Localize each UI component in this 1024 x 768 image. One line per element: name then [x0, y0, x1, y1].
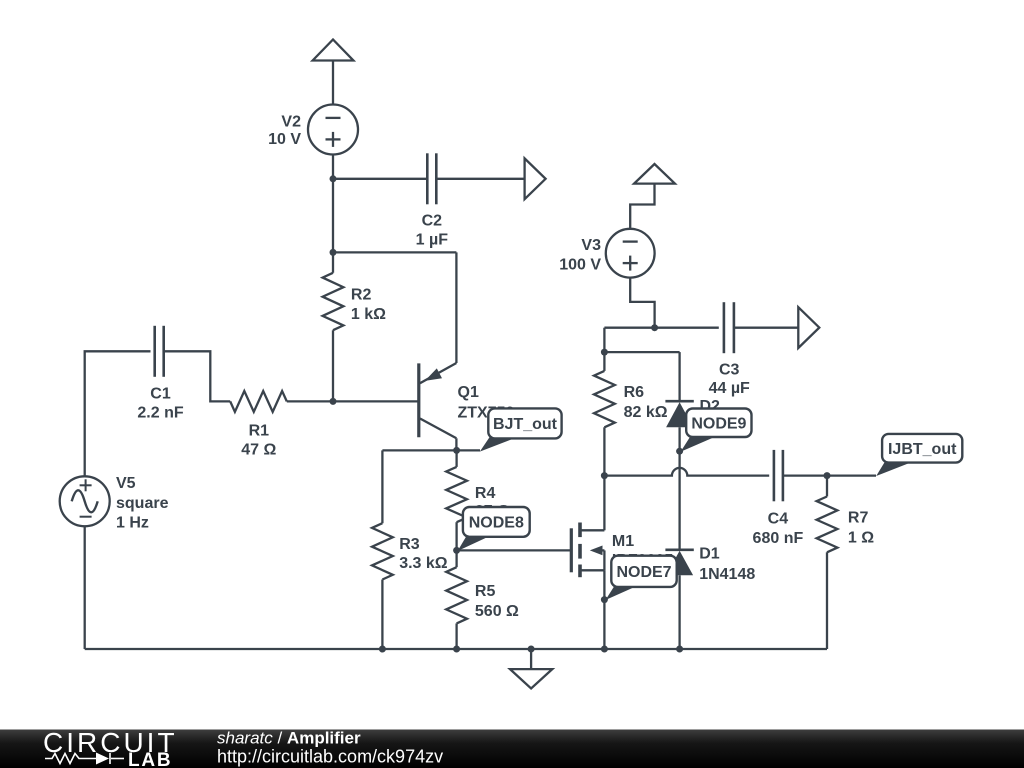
node junction R4/R5/M1 gate (NODE8) — [453, 547, 460, 554]
wire D1 anode to ground rail — [678, 575, 680, 649]
resistor R2 — [323, 252, 387, 401]
svg-text:sharatc / Amplifier: sharatc / Amplifier — [217, 729, 361, 748]
svg-text:NODE9: NODE9 — [691, 415, 746, 432]
CircuitLab logo — [43, 727, 178, 768]
node junction R6 bottom / M1 drain / mid rail — [601, 472, 608, 479]
wire C1 to R1 — [164, 351, 231, 401]
svg-text:47 Ω: 47 Ω — [241, 442, 276, 459]
power flag VCC (above V2) — [313, 40, 354, 61]
svg-text:LAB: LAB — [128, 750, 172, 768]
svg-text:R1: R1 — [249, 423, 270, 440]
svg-text:1 kΩ: 1 kΩ — [351, 306, 386, 323]
wire node to C3 — [604, 327, 718, 329]
junction rail/R3 — [379, 646, 386, 653]
wire NODE8 to M1 gate — [457, 549, 572, 551]
svg-text:NODE8: NODE8 — [469, 515, 524, 532]
svg-text:R3: R3 — [399, 536, 420, 553]
output port flag out2 — [798, 307, 819, 348]
wire V5 - down to ground rail — [84, 526, 86, 649]
resistor R6 — [594, 352, 668, 476]
wire node to D2 — [604, 351, 679, 353]
net flag IJBT_out (node IJBT_out) — [876, 434, 962, 476]
resistor R7 — [817, 476, 875, 649]
node junction D2/D1 (NODE9) — [676, 448, 683, 455]
node M1 source (NODE7) — [601, 596, 608, 603]
svg-text:82 kΩ: 82 kΩ — [624, 404, 668, 421]
capacitor C4 — [753, 450, 804, 547]
svg-text:Q1: Q1 — [458, 384, 479, 401]
svg-text:R6: R6 — [624, 384, 645, 401]
transistor M1 (NMOS) — [571, 476, 673, 649]
wire stub to BJT_out flag — [457, 449, 480, 451]
svg-text:square: square — [116, 495, 169, 512]
wire node to R3 — [382, 449, 456, 451]
wire V5 + up to C1 — [85, 351, 151, 477]
svg-text:BJT_out: BJT_out — [493, 416, 558, 433]
svg-text:R4: R4 — [475, 485, 496, 502]
voltage source V2 — [268, 105, 358, 155]
junction rail/D1 — [676, 646, 683, 653]
resistor R1 — [230, 391, 287, 459]
junction rail/ground — [528, 646, 535, 653]
wire node to Q1 emitter — [333, 251, 456, 253]
node junction V2/C2/R2 — [330, 175, 337, 182]
capacitor C3 — [709, 302, 750, 397]
svg-text:NODE7: NODE7 — [616, 564, 671, 581]
node junction C4/R7/IJBT_out — [824, 472, 831, 479]
capacitor C1 — [137, 326, 183, 422]
wire ground rail — [85, 648, 827, 650]
wire down to R2 node — [332, 179, 334, 253]
svg-text:680 nF: 680 nF — [753, 530, 804, 547]
junction rail/R5 — [453, 646, 460, 653]
ground — [510, 649, 552, 689]
svg-text:V2: V2 — [281, 113, 301, 130]
svg-text:1 Ω: 1 Ω — [848, 530, 874, 547]
svg-text:1 Hz: 1 Hz — [116, 514, 149, 531]
svg-text:R7: R7 — [848, 510, 869, 527]
wire R1 to Q1 base — [287, 400, 419, 402]
wire node to C2 — [333, 178, 427, 180]
capacitor C2 — [416, 153, 449, 248]
wire C2 to output flag — [436, 178, 524, 180]
voltage source V5 (square 1 Hz) — [60, 475, 169, 531]
svg-text:M1: M1 — [612, 533, 634, 550]
node junction V3 / C3 wire — [651, 324, 658, 331]
svg-text:100 V: 100 V — [559, 257, 601, 274]
node junction R1/R2/Q1 base — [330, 398, 337, 405]
node junction Q1 collector / R3 / R4 (BJT_out) — [453, 447, 460, 454]
svg-text:http://circuitlab.com/ck974zv: http://circuitlab.com/ck974zv — [217, 747, 443, 767]
wire D2 anode down to D1 (crosses mid rail) — [678, 427, 680, 550]
junction rail/M1 source — [601, 646, 608, 653]
wire node to IJBT_out flag — [827, 474, 876, 476]
power flag VDD (above V3) — [634, 164, 675, 184]
svg-text:IJBT_out: IJBT_out — [888, 441, 957, 458]
net flag BJT_out (node BJT_out) — [480, 408, 562, 451]
net flag NODE7 (node NODE7) — [606, 556, 677, 600]
svg-text:V3: V3 — [581, 237, 601, 254]
wire mid rail R6/M1 drain to C4 with hop over D2-D1 wire — [604, 468, 769, 476]
svg-text:560 Ω: 560 Ω — [475, 603, 519, 620]
transistor Q1 (PNP, ZTX750) — [419, 252, 515, 450]
resistor R4 — [446, 450, 510, 550]
resistor R3 — [372, 450, 448, 649]
node junction R6 top / D2 wire — [601, 349, 608, 356]
svg-text:10 V: 10 V — [268, 131, 301, 148]
net flag NODE9 (node NODE9) — [681, 409, 752, 452]
svg-text:1 µF: 1 µF — [416, 232, 449, 249]
wire V2 - to node — [332, 155, 334, 179]
svg-text:44 µF: 44 µF — [709, 380, 750, 397]
wire V3 - to node — [630, 278, 654, 328]
svg-text:R5: R5 — [475, 583, 496, 600]
svg-text:C2: C2 — [422, 212, 443, 229]
diode D1 — [665, 545, 755, 583]
wire power flag to V3 + — [630, 184, 654, 229]
wire power flag to V2 + — [332, 61, 334, 105]
svg-text:R2: R2 — [351, 286, 372, 303]
wire to D2 cathode — [678, 352, 680, 401]
svg-text:C3: C3 — [719, 362, 740, 379]
svg-text:D1: D1 — [699, 545, 720, 562]
wire C3 to output flag — [734, 327, 798, 329]
wire C4 to node — [783, 474, 827, 476]
voltage source V3 — [559, 229, 654, 278]
resistor R5 — [446, 550, 519, 649]
output port flag out1 — [525, 158, 546, 199]
node junction R2 top / Q1 emitter wire — [330, 249, 337, 256]
svg-text:3.3 kΩ: 3.3 kΩ — [399, 555, 448, 572]
svg-text:2.2 nF: 2.2 nF — [137, 404, 183, 421]
net flag NODE8 (node NODE8) — [458, 507, 530, 551]
footer text — [217, 729, 443, 767]
diode D2 — [665, 398, 720, 427]
wire down to R6 node — [603, 328, 605, 352]
svg-text:C1: C1 — [150, 386, 171, 403]
svg-text:V5: V5 — [116, 475, 136, 492]
svg-text:1N4148: 1N4148 — [699, 566, 755, 583]
svg-text:C4: C4 — [768, 511, 789, 528]
